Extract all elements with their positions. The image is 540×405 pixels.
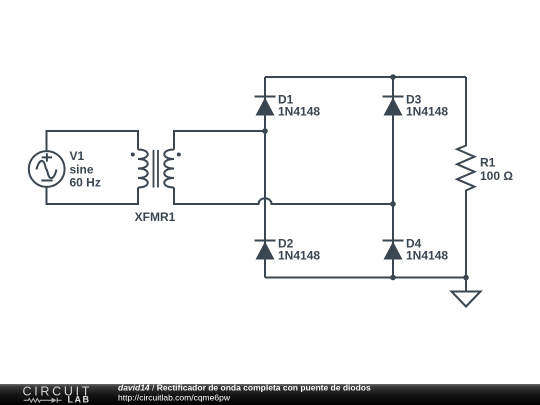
- svg-text:R1: R1: [480, 156, 496, 170]
- svg-text:david14 / Rectificador de onda: david14 / Rectificador de onda completa …: [118, 383, 371, 393]
- svg-text:60 Hz: 60 Hz: [70, 176, 101, 190]
- svg-text:XFMR1: XFMR1: [135, 210, 176, 224]
- svg-text:V1: V1: [70, 149, 85, 163]
- svg-text:sine: sine: [70, 162, 94, 176]
- svg-text:http://circuitlab.com/cqme6pw: http://circuitlab.com/cqme6pw: [118, 392, 231, 402]
- svg-text:100 Ω: 100 Ω: [480, 169, 513, 183]
- svg-text:1N4148: 1N4148: [278, 105, 320, 119]
- svg-text:1N4148: 1N4148: [278, 249, 320, 263]
- svg-text:LAB: LAB: [68, 394, 91, 404]
- svg-text:1N4148: 1N4148: [406, 105, 448, 119]
- svg-text:1N4148: 1N4148: [406, 249, 448, 263]
